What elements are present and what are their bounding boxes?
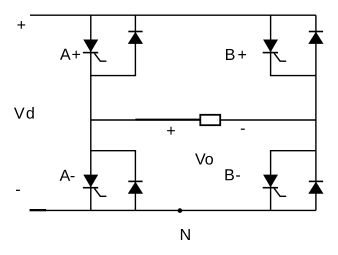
diode A+ xyxy=(128,32,142,44)
wire bottom rail xyxy=(30,209,316,211)
label A+ xyxy=(60,49,80,60)
label B+ xyxy=(226,49,246,60)
load resistor box xyxy=(200,115,220,125)
wire top positive rail xyxy=(30,14,316,16)
label Vd xyxy=(14,107,34,119)
thyristor B- xyxy=(263,175,287,196)
wire left vertical leg A xyxy=(90,15,92,210)
diode A- xyxy=(128,181,142,193)
thyristor A+ xyxy=(83,40,107,61)
label - (output negative) xyxy=(241,129,245,130)
node N junction dot xyxy=(178,208,183,213)
wire middle rail overdrawn stub xyxy=(135,119,200,121)
wire B- arm top connector xyxy=(270,150,316,152)
label - (source negative) xyxy=(16,190,20,191)
label A- xyxy=(60,170,75,181)
wire B+ thyristor branch xyxy=(270,15,272,75)
wire middle output rail xyxy=(91,119,316,121)
wire B+ arm bottom connector xyxy=(270,75,316,77)
wire A- arm top connector xyxy=(90,150,136,152)
wire A- diode branch xyxy=(134,151,136,211)
label Vo xyxy=(195,153,213,164)
thyristor A- xyxy=(83,175,107,196)
label + (output positive) xyxy=(167,127,175,135)
wire A+ arm bottom connector xyxy=(90,75,136,77)
label B- xyxy=(225,169,240,180)
wire bottom rail overdrawn stub xyxy=(30,209,46,211)
label + (source positive) xyxy=(17,21,25,29)
diode B- xyxy=(309,181,323,193)
wire right vertical leg B xyxy=(315,15,317,210)
diode B+ xyxy=(309,32,323,44)
wire A+ diode branch xyxy=(134,15,136,75)
thyristor B+ xyxy=(263,40,287,61)
wire B- thyristor branch xyxy=(270,151,272,211)
label N xyxy=(181,229,190,240)
